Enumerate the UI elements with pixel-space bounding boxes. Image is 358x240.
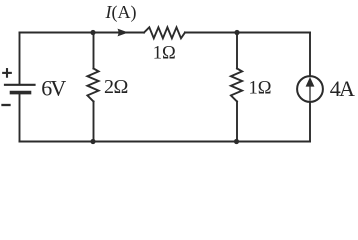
battery V1 positive plate (long) — [5, 84, 35, 86]
current arrow I — [118, 29, 129, 37]
wire 1ohm branch upper stub — [236, 33, 238, 69]
node B junction dot (top of 1ohm) — [234, 30, 239, 35]
svg-text:6V: 6V — [41, 75, 66, 100]
svg-text:I(A): I(A) — [105, 2, 137, 23]
svg-text:1Ω: 1Ω — [249, 78, 272, 98]
wire right side upper (corner to current source) — [309, 33, 311, 77]
wire node B to top-right corner — [237, 32, 310, 34]
node C junction dot (bottom of 2ohm) — [90, 139, 95, 144]
battery V1 negative plate (short thick) — [12, 91, 30, 95]
wire right side lower (current source to bottom corner) — [309, 102, 311, 142]
wire top-left segment (corner to node A) — [20, 32, 94, 34]
svg-text:2Ω: 2Ω — [104, 76, 128, 98]
current source I1 arrow head (up) — [306, 77, 315, 87]
wire node A to resistor 1ohm (carries current arrow) — [93, 32, 144, 34]
resistor R1 2ohm vertical zigzag — [87, 69, 98, 102]
svg-text:1Ω: 1Ω — [153, 43, 176, 63]
resistor R2 1ohm horizontal zigzag — [144, 27, 185, 38]
node D junction dot (bottom of 1ohm) — [234, 139, 239, 144]
current source I1 circle — [297, 76, 323, 102]
node A junction dot (top of 2ohm) — [90, 30, 95, 35]
wire left side upper (corner down to battery + plate) — [19, 33, 21, 85]
wire left side lower (battery - plate to bottom corner) — [19, 93, 21, 142]
battery minus sign — [3, 104, 10, 106]
wire bottom rail — [20, 141, 311, 143]
battery plus sign — [3, 69, 11, 77]
svg-text:4A: 4A — [330, 76, 355, 101]
wire resistor 1ohm to node B — [185, 32, 237, 34]
resistor R3 1ohm vertical zigzag — [231, 69, 242, 102]
wire 1ohm branch lower stub — [236, 102, 238, 142]
wire 2ohm branch lower stub — [93, 102, 95, 142]
wire 2ohm branch upper stub — [93, 33, 95, 69]
current source I1 arrow stem — [309, 87, 311, 101]
